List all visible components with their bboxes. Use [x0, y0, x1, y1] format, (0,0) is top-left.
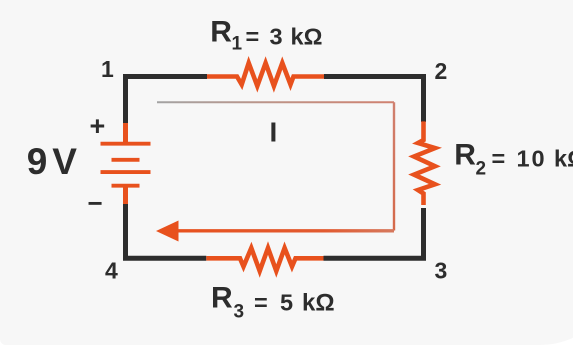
battery V1 bottom stub	[123, 186, 128, 204]
label R3 = 5 kOhm	[211, 282, 335, 323]
svg-text:4: 4	[105, 258, 118, 284]
svg-text:I: I	[270, 117, 278, 148]
svg-text:2: 2	[435, 58, 448, 84]
wire R3 left lead to node 4 and up to battery minus	[126, 203, 207, 258]
battery V1 plate long top	[101, 142, 151, 146]
svg-text:9V: 9V	[27, 141, 78, 182]
current loop right segment	[393, 102, 395, 230]
label R1 = 3 kOhm	[210, 16, 322, 55]
svg-text:R1=3kΩ: R1=3kΩ	[210, 16, 322, 55]
current loop top segment	[157, 101, 394, 103]
battery V1 plate short	[112, 158, 140, 162]
battery plus sign	[90, 111, 106, 141]
battery V1 9V top stub	[123, 123, 128, 144]
label current I	[270, 117, 278, 148]
resistor R3 5 kOhm	[206, 248, 323, 271]
battery minus sign	[88, 188, 103, 218]
node 1 label	[101, 56, 114, 82]
resistor R2 10 kOhm	[414, 121, 435, 205]
current loop bottom segment with arrow	[156, 221, 394, 242]
node 3 label	[435, 258, 448, 284]
node 2 label	[435, 58, 448, 84]
svg-text:+: +	[90, 111, 106, 141]
svg-text:3: 3	[435, 258, 448, 284]
wire node1 top-left corner to R1 left lead	[126, 77, 208, 127]
resistor R1 3 kOhm	[207, 63, 324, 86]
svg-text:1: 1	[101, 56, 114, 82]
battery V1 plate long bottom	[101, 170, 151, 174]
wire R2 bottom to node 3 and left to R3 right lead	[324, 208, 424, 258]
label battery value 9 V	[27, 141, 78, 182]
battery V1 plate short bottom	[112, 184, 140, 188]
svg-text:R3=5kΩ: R3=5kΩ	[211, 282, 335, 323]
svg-text:R2=10kΩ: R2=10kΩ	[454, 138, 573, 179]
node 4 label	[105, 258, 118, 284]
wire R1 right lead to node 2 and down to R2	[324, 77, 424, 123]
label R2 = 10 kOhm	[454, 138, 573, 179]
svg-text:−: −	[88, 188, 103, 218]
